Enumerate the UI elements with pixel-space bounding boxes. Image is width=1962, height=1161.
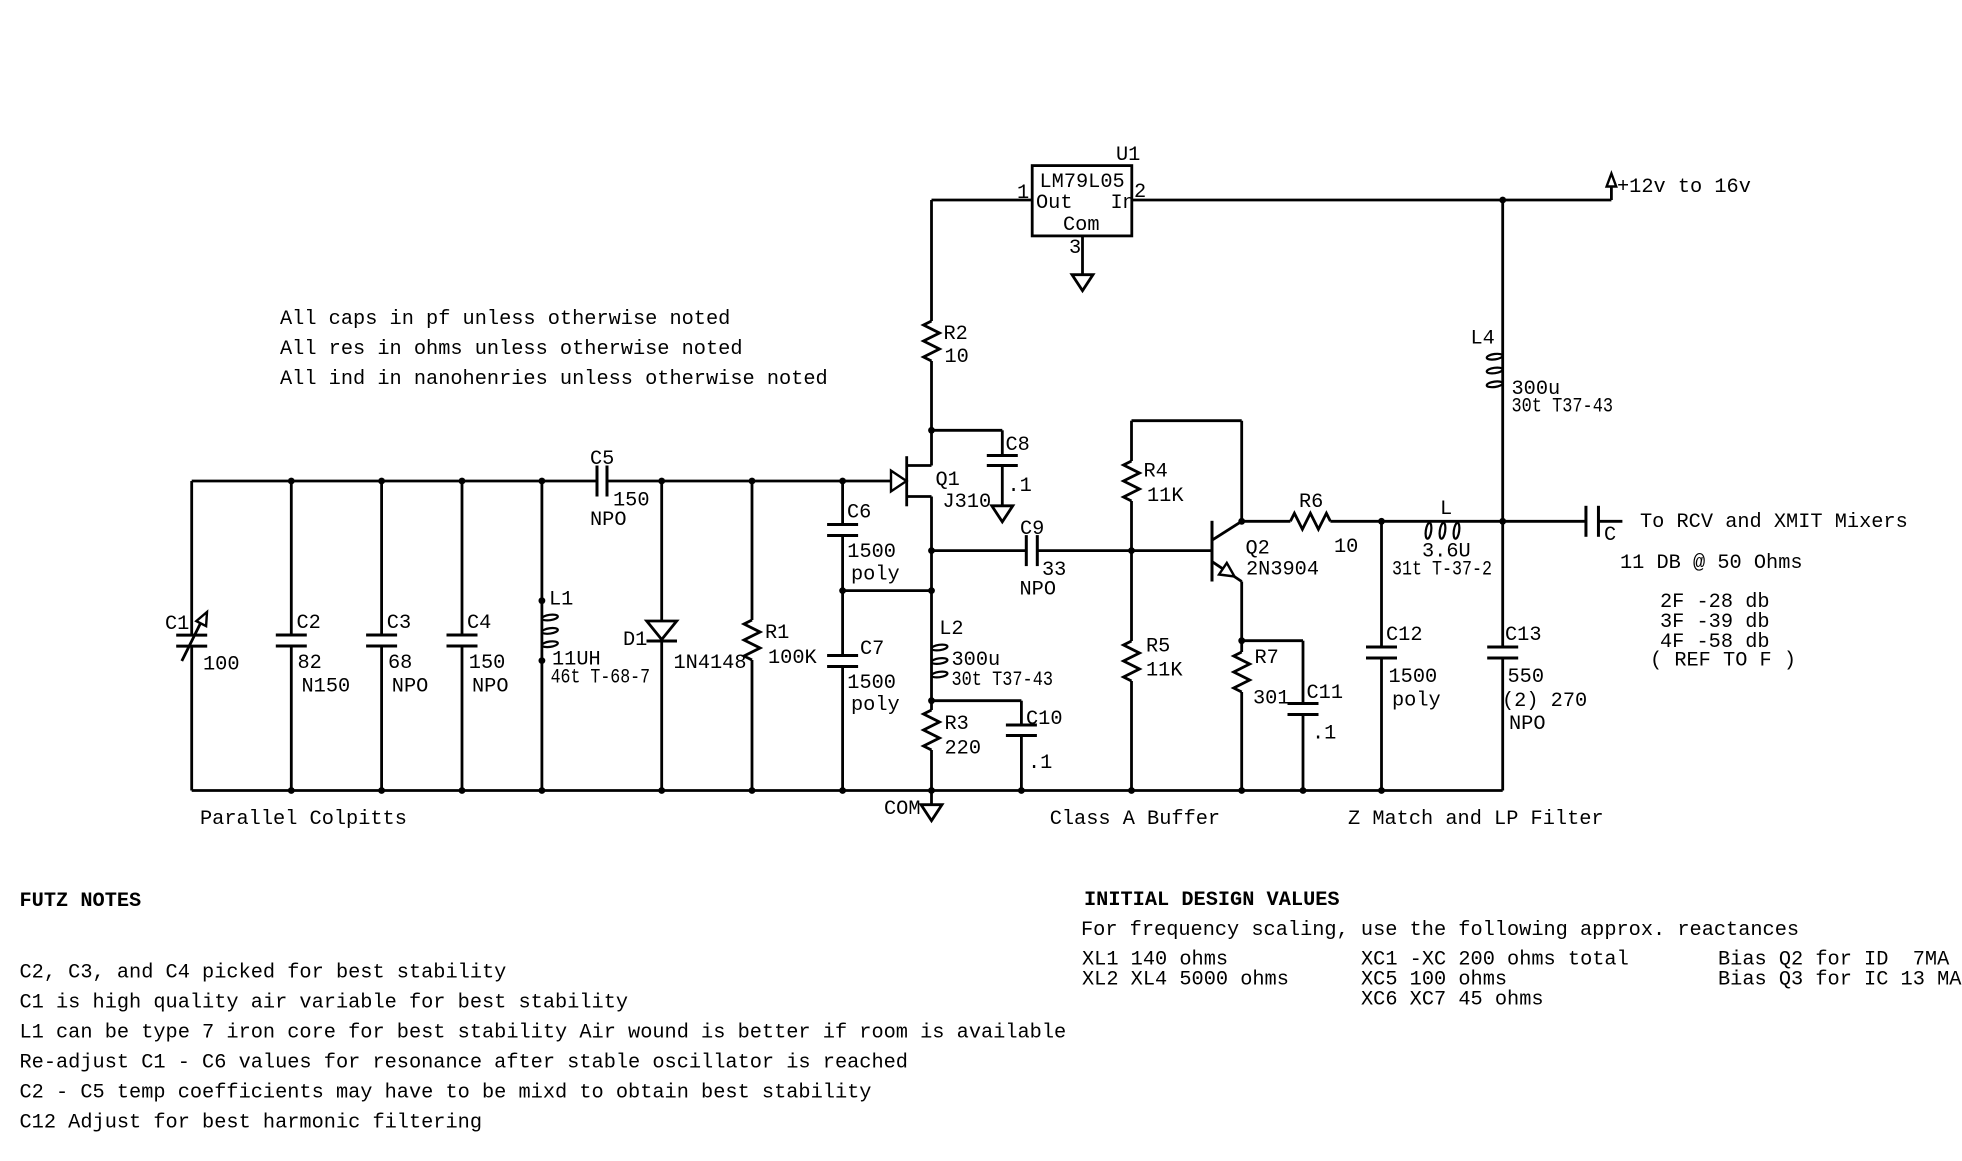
pin number 3 (U1) [1069,237,1081,260]
svg-text:C3: C3 [387,612,411,635]
note Re-adjust C1-C6 [20,1052,908,1075]
heading FUTZ NOTES [20,890,142,913]
wire C6-C7 mid [841,536,844,656]
section label Z Match and LP Filter [1348,808,1604,831]
svg-text:All caps in pf unless otherwis: All caps in pf unless otherwise noted [280,308,730,331]
value 1500 (C7) [847,672,896,695]
svg-text:XC6 XC7 45 ohms: XC6 XC7 45 ohms [1361,989,1544,1012]
svg-text:C5: C5 [590,448,614,471]
value 31t T-37-2 (L) [1392,559,1492,582]
svg-text:2N3904: 2N3904 [1246,559,1319,582]
note XL2 XL4 5000 ohms [1082,969,1289,992]
value 150 (C4) [469,652,506,675]
wire R6 to C12 node [1330,520,1381,523]
capacitor C4 [447,635,478,646]
wire R5 bottom [1130,681,1133,791]
svg-text:R3: R3 [945,713,969,736]
wire COM stub [930,791,933,805]
label In (U1 pin2) [1111,192,1135,215]
label Out (U1 pin1) [1036,192,1073,215]
label C1 [165,613,189,636]
svg-text:L1: L1 [549,589,573,612]
inductor L2 [931,644,948,679]
note C2 C3 C4 picked [20,962,507,985]
IC U1 box [1032,166,1132,236]
value 150 (C5) [613,490,650,513]
svg-text:11K: 11K [1147,485,1184,508]
label R1 [765,622,789,645]
value 30t T37-43 (L2) [952,669,1054,692]
value 33 (C9) [1042,559,1066,582]
value 550 (C13) [1508,666,1545,689]
svg-text:( REF TO F ): ( REF TO F ) [1650,650,1796,673]
label C8 [1006,434,1030,457]
svg-text:11 DB @ 50 Ohms: 11 DB @ 50 Ohms [1620,552,1803,575]
pin number 1 (U1) [1017,182,1029,205]
wire R3 bottom [930,750,933,791]
svg-text:R7: R7 [1255,647,1279,670]
svg-text:J310: J310 [943,491,992,514]
note L1 type 7 [20,1022,1067,1045]
wire R2 bottom [930,361,933,430]
note XC1 -XC 200 ohms total [1361,949,1629,972]
label C10 [1026,708,1063,731]
transistor Q1 gate arrow [891,471,907,492]
svg-text:FUTZ NOTES: FUTZ NOTES [20,890,142,913]
svg-text:In: In [1111,192,1135,215]
svg-text:L2: L2 [939,618,963,641]
svg-text:30t T37-43: 30t T37-43 [1512,396,1614,419]
value 1500 (C6) [847,541,896,564]
svg-text:C1 is high quality air variabl: C1 is high quality air variable for best… [20,992,629,1015]
svg-text:U1: U1 [1116,144,1140,167]
svg-text:R4: R4 [1144,461,1168,484]
svg-text:C8: C8 [1006,434,1030,457]
pin number 2 (U1) [1134,181,1146,204]
label Q2 [1246,538,1270,561]
svg-text:NPO: NPO [1020,579,1057,602]
svg-text:Z Match and LP Filter: Z Match and LP Filter [1348,808,1604,831]
wire R1 branch top [751,481,754,620]
wire tap C6-C7 to source [843,589,932,592]
svg-text:C10: C10 [1026,708,1063,731]
svg-text:10: 10 [945,346,969,369]
wire collector to R6 [1242,520,1291,523]
svg-text:1500: 1500 [1389,666,1438,689]
value poly (C12) [1392,690,1441,713]
svg-text:C2: C2 [297,612,321,635]
capacitor C7 [827,656,858,667]
svg-text:3: 3 [1069,237,1081,260]
svg-text:Q1: Q1 [936,469,960,492]
svg-text:XL2 XL4 5000 ohms: XL2 XL4 5000 ohms [1082,969,1289,992]
wire C13 bottom [1501,658,1504,791]
label C9 [1020,518,1044,541]
value (2) 270 (C13) [1502,690,1587,713]
svg-text:Parallel Colpitts: Parallel Colpitts [200,808,407,831]
wire C3 branch [380,481,383,791]
svg-text:(2) 270: (2) 270 [1502,690,1587,713]
svg-text:31t T-37-2: 31t T-37-2 [1392,559,1492,582]
wire U1 pin1 to R2 corner [932,199,1033,202]
svg-text:.1: .1 [1028,752,1052,775]
wire L1 branch [541,481,544,791]
resistor R1 [744,620,760,660]
wire C6 branch top [841,481,844,525]
resistor R2 [924,321,940,361]
label 4F -58 db [1660,631,1770,654]
heading INITIAL DESIGN VALUES [1084,889,1340,912]
svg-text:Class A Buffer: Class A Buffer [1050,808,1220,831]
inductor L4 [1486,353,1503,388]
wire C9 to Q2 base [1037,549,1212,552]
label U1 [1116,144,1140,167]
svg-text:C12: C12 [1386,624,1423,647]
wire L4 to C13 [1501,521,1504,647]
wire left edge vertical (C1 branch) [190,481,193,791]
svg-text:1: 1 [1017,182,1029,205]
wire C2 branch [290,481,293,791]
diode D1 [647,621,678,641]
capacitor C3 [366,635,397,646]
label R4 [1144,461,1168,484]
svg-text:.1: .1 [1312,723,1336,746]
wire C8 to ground [1001,466,1004,506]
label Com (U1 pin3) [1063,214,1100,237]
transistor Q2 emitter [1212,562,1242,582]
wire source mid [930,551,933,591]
label 11 DB @ 50 Ohms [1620,552,1803,575]
svg-text:C11: C11 [1307,682,1344,705]
value N150 (C2) [302,676,351,699]
svg-text:C2 - C5 temp coefficients may: C2 - C5 temp coefficients may have to be… [20,1082,872,1105]
svg-text:1500: 1500 [847,541,896,564]
wire L segment [1382,520,1586,523]
note C1 air variable [20,992,629,1015]
transistor Q1 channel [905,456,908,506]
label C13 [1505,624,1542,647]
value .1 (C11) [1312,723,1336,746]
value poly (C7) [851,694,900,717]
wire collector drop [1240,421,1243,522]
label +12v to 16v [1617,176,1751,199]
svg-text:C9: C9 [1020,518,1044,541]
svg-text:550: 550 [1508,666,1545,689]
label C5 [590,448,614,471]
value NPO (C4) [472,676,509,699]
wire L4 branch [1501,200,1504,521]
svg-text:D1: D1 [623,629,647,652]
capacitor C12 [1366,647,1397,658]
svg-text:C12 Adjust for best harmonic f: C12 Adjust for best harmonic filtering [20,1112,483,1135]
label R3 [945,713,969,736]
svg-text:Q2: Q2 [1246,538,1270,561]
capacitor C1 (variable) [176,612,207,661]
svg-text:All res in ohms unless otherwi: All res in ohms unless otherwise noted [280,338,743,361]
svg-text:NPO: NPO [1509,713,1546,736]
note All res [280,338,743,361]
wire top rail left of C5 [192,480,597,483]
svg-text:11K: 11K [1146,660,1183,683]
svg-text:L1 can be type 7 iron core for: L1 can be type 7 iron core for best stab… [20,1022,1067,1045]
capacitor C10 [1006,725,1037,736]
label ( REF TO F ) [1650,650,1796,673]
svg-text:C13: C13 [1505,624,1542,647]
inductor L1 [542,614,559,648]
wire D1 branch cathode [660,641,663,791]
svg-text:301: 301 [1253,688,1290,711]
transistor Q2 base bar [1211,521,1214,582]
svg-text:INITIAL DESIGN VALUES: INITIAL DESIGN VALUES [1084,889,1340,912]
ground COM [921,805,942,821]
label R7 [1255,647,1279,670]
capacitor C8 [987,456,1018,466]
label C3 [387,612,411,635]
wire U1 pin3 stub [1081,236,1084,275]
section label Class A Buffer [1050,808,1220,831]
ground (C8) [992,506,1013,522]
label 3F -39 db [1660,611,1770,634]
wire C12 branch [1380,521,1383,647]
svg-text:C7: C7 [860,638,884,661]
svg-text:COM: COM [884,798,921,821]
note XL1 140 ohms [1082,949,1228,972]
svg-text:10: 10 [1334,536,1358,559]
svg-text:R2: R2 [944,323,968,346]
label To RCV and XMIT Mixers [1640,511,1908,534]
svg-text:R1: R1 [765,622,789,645]
value 46t T-68-7 (L1) [551,667,651,690]
svg-text:Bias Q3 for IC 13 MA: Bias Q3 for IC 13 MA [1718,969,1962,992]
svg-text:For frequency scaling, use the: For frequency scaling, use the following… [1081,919,1799,942]
value NPO (C3) [392,676,429,699]
wire R4 bottom [1130,501,1133,551]
svg-text:220: 220 [945,738,982,761]
label C4 [467,612,491,635]
label R2 [944,323,968,346]
value 301 (R7) [1253,688,1290,711]
label C6 [847,502,871,525]
svg-text:To RCV and XMIT Mixers: To RCV and XMIT Mixers [1640,511,1908,534]
svg-text:1N4148: 1N4148 [674,652,747,675]
label C (output cap) [1604,524,1616,547]
label R6 [1299,491,1323,514]
value 1500 (C12) [1389,666,1438,689]
wire emitter drop [1240,582,1243,641]
label LM79L05 (U1) [1040,171,1125,194]
svg-text:poly: poly [851,694,900,717]
label C11 [1307,682,1344,705]
note C12 adjust [20,1112,483,1135]
wire C10 branch [932,701,1022,725]
label 2F -28 db [1660,591,1770,614]
value 3.6U (L) [1422,541,1471,564]
wire R5 top [1130,551,1133,641]
wire R2 top [930,200,933,321]
svg-text:C1: C1 [165,613,189,636]
capacitor C9 [1026,535,1037,566]
svg-text:L4: L4 [1471,328,1495,351]
svg-text:NPO: NPO [392,676,429,699]
ground (U1 pin3) [1072,275,1093,291]
value 30t T37-43 (L4) [1512,396,1614,419]
svg-text:Re-adjust C1 - C6 values for r: Re-adjust C1 - C6 values for resonance a… [20,1052,908,1075]
wire source to C9 [932,549,1027,552]
note All caps [280,308,730,331]
section label Parallel Colpitts [200,808,407,831]
value 11K (R5) [1146,660,1183,683]
svg-text:C6: C6 [847,502,871,525]
label R5 [1146,636,1170,659]
svg-text:82: 82 [298,652,322,675]
note Bias Q3 [1718,969,1962,992]
svg-text:LM79L05: LM79L05 [1040,171,1125,194]
note For frequency scaling [1081,919,1799,942]
power arrow +12v [1607,174,1617,201]
value .1 (C8) [1008,475,1032,498]
resistor R5 [1124,641,1140,681]
svg-text:Com: Com [1063,214,1100,237]
wire top rail C5 to Q1 gate [607,480,891,483]
wire C4 branch [461,481,464,791]
wire U1 pin2 to +12v [1132,199,1612,202]
wire C8 branch [932,430,1003,455]
wire C12 bottom [1380,658,1383,791]
capacitor C11 [1288,704,1319,715]
svg-text:NPO: NPO [590,509,627,532]
label L1 [549,589,573,612]
value 100 (C1) [203,654,240,677]
svg-text:C: C [1604,524,1616,547]
value 11K (R4) [1147,485,1184,508]
wire C11 bottom [1302,715,1305,791]
transistor Q1 source lead [907,497,932,551]
capacitor C13 [1487,647,1518,658]
value 300u (L2) [952,649,1001,672]
svg-text:Out: Out [1036,192,1073,215]
svg-text:.1: .1 [1008,475,1032,498]
capacitor C (output) [1586,506,1599,537]
wire bottom rail [192,789,1503,792]
value 68 (C3) [388,652,412,675]
svg-text:1500: 1500 [847,672,896,695]
svg-text:poly: poly [1392,690,1441,713]
capacitor C5 [597,466,607,497]
resistor R3 [924,710,940,750]
value NPO (C5) [590,509,627,532]
resistor R7 [1234,652,1250,692]
wire R7 top [1240,641,1243,652]
wire D1 branch anode [660,481,663,621]
resistor R4 [1124,461,1140,501]
note XC6 XC7 45 ohms [1361,989,1544,1012]
resistor R6 [1290,513,1330,529]
value 220 (R3) [945,738,982,761]
note XC5 100 ohms [1361,969,1507,992]
label COM [884,798,921,821]
note C2-C5 temp [20,1082,872,1105]
label C12 [1386,624,1423,647]
value 82 (C2) [298,652,322,675]
value 11UH (L1) [552,649,601,672]
svg-text:R5: R5 [1146,636,1170,659]
label C7 [860,638,884,661]
note Bias Q2 [1718,949,1950,972]
svg-text:100: 100 [203,654,240,677]
svg-text:C4: C4 [467,612,491,635]
label D1 [623,629,647,652]
capacitor C6 [827,525,858,536]
svg-text:C2, C3, and C4 picked for best: C2, C3, and C4 picked for best stability [20,962,507,985]
wire C10 bottom [1020,736,1023,791]
svg-text:N150: N150 [302,676,351,699]
wire R4 top corner [1132,421,1242,461]
svg-text:+12v to 16v: +12v to 16v [1617,176,1751,199]
value .1 (C10) [1028,752,1052,775]
value 300u (L4) [1512,378,1561,401]
wire R1 branch bottom [751,660,754,791]
value 1N4148 (D1) [674,652,747,675]
transistor Q1 drain lead [907,430,932,465]
svg-text:L: L [1440,498,1452,521]
value poly (C6) [851,564,900,587]
label L4 [1471,328,1495,351]
value 2N3904 (Q2) [1246,559,1319,582]
wire R7 bottom [1240,692,1243,791]
value 10 (R2) [945,346,969,369]
label C2 [297,612,321,635]
svg-text:68: 68 [388,652,412,675]
svg-text:150: 150 [469,652,506,675]
value NPO (C13) [1509,713,1546,736]
svg-text:R6: R6 [1299,491,1323,514]
svg-text:46t T-68-7: 46t T-68-7 [551,667,651,690]
wire output stub [1599,520,1623,523]
wire C7 bottom [841,667,844,791]
wire L2 segment [930,591,933,710]
svg-text:30t T37-43: 30t T37-43 [952,669,1054,692]
value 100K (R1) [768,647,818,670]
note All ind [280,368,828,391]
value 10 (R6) [1334,536,1358,559]
value NPO (C9) [1020,579,1057,602]
label Q1 [936,469,960,492]
svg-text:NPO: NPO [472,676,509,699]
capacitor C2 [276,635,307,646]
svg-text:100K: 100K [768,647,818,670]
svg-text:All ind in nanohenries unless: All ind in nanohenries unless otherwise … [280,368,828,391]
label L2 [939,618,963,641]
inductor L [1425,523,1461,540]
wire C11 branch [1242,641,1303,704]
label L [1440,498,1452,521]
value J310 (Q1) [943,491,992,514]
svg-text:poly: poly [851,564,900,587]
transistor Q2 collector [1212,521,1242,540]
